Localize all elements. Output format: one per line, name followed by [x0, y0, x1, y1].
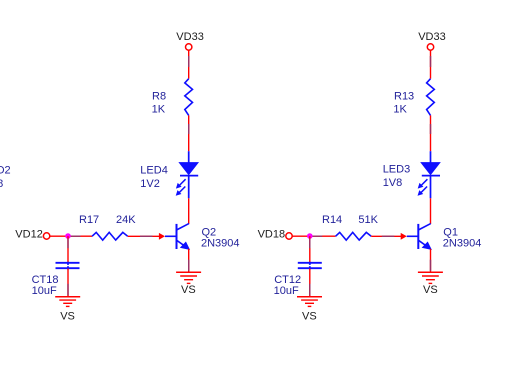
svg-text:1V2: 1V2 — [140, 178, 160, 190]
pin overlap segment below R13 — [430, 124, 432, 134]
pin overlap segment above ground (Q2) — [188, 260, 190, 271]
svg-text:LED2: LED2 — [0, 165, 11, 177]
svg-text:VD18: VD18 — [258, 229, 286, 241]
pin overlap segment left of Q2 base — [140, 235, 153, 237]
wire Q1 emitter to ground — [430, 249, 432, 272]
resistor R17 — [92, 232, 128, 240]
power terminal circle VD33 (right) — [427, 44, 433, 50]
pin overlap segment left of Q1 base — [382, 235, 395, 237]
resistor R14 — [336, 232, 372, 240]
svg-text:1K: 1K — [393, 104, 407, 116]
svg-text:10uF: 10uF — [32, 285, 57, 297]
resistor R13 — [427, 79, 435, 116]
input terminal circle VD12 — [43, 233, 49, 239]
wire arrowhead at Q2 base — [159, 233, 165, 240]
LED LED3 — [419, 151, 441, 198]
svg-text:VD33: VD33 — [418, 31, 446, 43]
svg-text:2N3904: 2N3904 — [201, 238, 240, 250]
wire junction to CT12 — [309, 236, 311, 262]
pin overlap segment above R8 — [188, 56, 190, 67]
LED LED4 — [177, 151, 199, 198]
svg-text:R8: R8 — [152, 91, 166, 103]
svg-text:VD12: VD12 — [15, 229, 43, 241]
pin overlap segment above R13 — [430, 56, 432, 67]
wire VD33 to R13 — [430, 51, 432, 79]
svg-text:R14: R14 — [322, 214, 342, 226]
svg-text:R17: R17 — [79, 214, 99, 226]
wire CT12 to ground — [309, 269, 311, 297]
pin overlap segment below R8 — [188, 124, 190, 134]
power terminal circle VD33 (left) — [186, 44, 192, 50]
input terminal circle VD18 — [286, 233, 292, 239]
pin overlap segment below junction (VD18) — [309, 239, 311, 249]
svg-text:LED4: LED4 — [140, 165, 168, 177]
capacitor CT18 — [56, 262, 80, 270]
pin overlap segment below junction — [67, 239, 69, 249]
transistor Q1 — [407, 224, 431, 250]
wire arrowhead at Q1 base — [401, 233, 407, 240]
svg-text:1V8: 1V8 — [383, 177, 403, 189]
svg-text:VS: VS — [181, 284, 196, 296]
wire R14 to Q1 base — [371, 235, 401, 237]
wire R13 to LED3 — [430, 115, 432, 151]
svg-text:VS: VS — [302, 311, 317, 323]
wire R17 to Q2 base — [128, 235, 160, 237]
pin overlap segment above ground (CT18) — [67, 284, 69, 296]
capacitor CT12 — [298, 262, 322, 270]
wire VD12 to R17 — [50, 235, 92, 237]
ground VS under Q2 — [176, 272, 201, 283]
svg-text:10uF: 10uF — [274, 285, 299, 297]
ground VS under CT12 — [297, 297, 322, 307]
wire R8 to LED4 — [188, 115, 190, 151]
svg-text:LED3: LED3 — [383, 164, 411, 176]
svg-text:51K: 51K — [358, 214, 378, 226]
transistor Q2 — [165, 224, 189, 250]
svg-text:2N3904: 2N3904 — [443, 238, 482, 250]
resistor R8 — [185, 79, 193, 116]
wire LED3 to Q1 collector — [430, 198, 432, 224]
junction node VD18 — [307, 233, 313, 239]
wire CT18 to ground — [67, 269, 69, 297]
pin overlap segment above ground (Q1) — [430, 260, 432, 271]
wire LED4 to Q2 collector — [188, 198, 190, 224]
pin overlap segment right of junction — [71, 235, 81, 237]
ground VS under Q1 — [418, 272, 443, 283]
svg-text:VD33: VD33 — [176, 31, 204, 43]
pin overlap segment above ground (CT12) — [309, 284, 311, 296]
svg-text:24K: 24K — [116, 214, 136, 226]
svg-text:VS: VS — [60, 311, 75, 323]
junction node VD12 — [65, 233, 71, 239]
svg-text:R13: R13 — [394, 91, 414, 103]
svg-text:1V8: 1V8 — [0, 178, 3, 190]
wire junction to CT18 — [67, 236, 69, 262]
wire VD18 to R14 — [292, 235, 335, 237]
pin overlap segment right of junction (VD18) — [312, 235, 322, 237]
svg-text:VS: VS — [423, 284, 438, 296]
wire VD33 to R8 — [188, 51, 190, 79]
svg-text:1K: 1K — [152, 104, 166, 116]
ground VS under CT18 — [55, 297, 80, 307]
wire Q2 emitter to ground — [188, 249, 190, 272]
